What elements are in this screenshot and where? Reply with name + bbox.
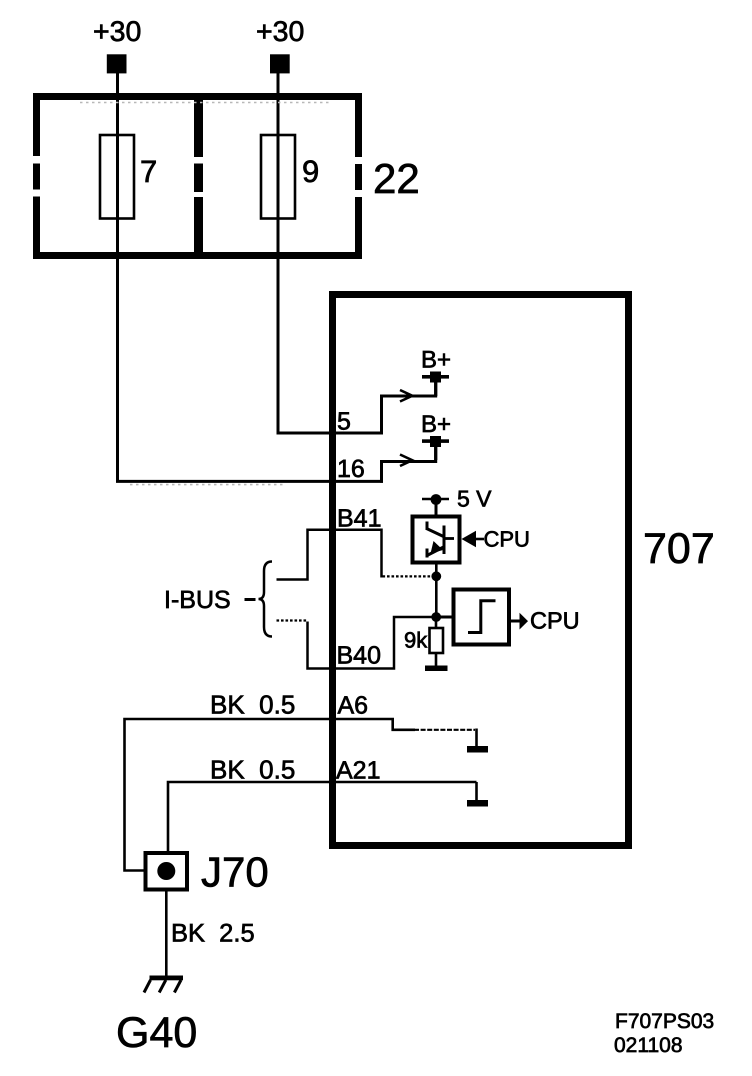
terminal +30 right square	[270, 54, 290, 73]
terminal +30 left square	[107, 54, 127, 73]
wire I-BUS lower to pin B40 and to junction	[308, 617, 433, 669]
drawing number F707PS03	[615, 1010, 714, 1033]
resistor 9k	[430, 620, 444, 666]
CPU arrow out of U2	[511, 613, 528, 630]
pin 5 label	[337, 408, 351, 436]
wire J70 to ground G40	[165, 889, 168, 976]
svg-text:+30: +30	[256, 16, 304, 48]
svg-text:B+: B+	[421, 347, 451, 374]
junction dot at B40 node	[431, 612, 441, 622]
fuse 7 label	[140, 154, 157, 189]
wire A6 internal to ground	[393, 719, 477, 746]
pin A21 label	[336, 757, 380, 785]
pin A6 label	[338, 692, 369, 720]
junction dot below U1	[431, 563, 441, 617]
5 V label	[457, 486, 492, 512]
BK 2.5 label	[171, 920, 255, 948]
svg-text:021108: 021108	[614, 1034, 683, 1057]
pin B41 label	[337, 505, 381, 533]
BK 0.5 label A21	[210, 755, 295, 785]
svg-text:B+: B+	[421, 411, 451, 438]
svg-text:B41: B41	[337, 505, 381, 533]
wire I-BUS lower stub (dashed in scan)	[277, 619, 307, 621]
ground bar A21	[467, 800, 488, 807]
label 22	[373, 155, 420, 202]
wire A21 to J70	[168, 782, 477, 871]
label 707	[643, 525, 715, 573]
B+ terminal upper	[422, 372, 449, 397]
BK 0.5 label A6	[210, 690, 295, 720]
schmitt trigger U2 box	[454, 590, 510, 645]
CPU label lower	[530, 608, 580, 634]
terminal +30 left (label)	[93, 16, 141, 48]
opto-isolator U1 box	[413, 517, 460, 563]
B+ label lower	[421, 411, 451, 438]
svg-text:5 V: 5 V	[457, 486, 492, 512]
chevron arrow pin 16	[400, 455, 412, 467]
I-BUS brace	[259, 562, 273, 637]
svg-text:9: 9	[302, 154, 319, 189]
svg-text:7: 7	[140, 154, 157, 189]
wire I-BUS upper to pin B41 and into box	[277, 530, 382, 580]
wire from +30 right through fuse 9 to pin 5	[278, 73, 383, 433]
svg-text:16: 16	[337, 455, 365, 483]
svg-text:22: 22	[373, 155, 420, 202]
J70 label	[201, 849, 269, 896]
fuse 9	[261, 135, 295, 219]
junction J70 box	[146, 853, 188, 890]
B+ terminal lower	[422, 436, 449, 460]
fuse 7	[100, 135, 134, 219]
svg-text:BK 2.5: BK 2.5	[171, 920, 255, 948]
svg-text:CPU: CPU	[530, 608, 580, 634]
ground bar below 9k	[425, 666, 448, 672]
svg-text:5: 5	[337, 408, 351, 436]
transistor symbol in U1	[427, 522, 455, 558]
scan noise below pin16 wire	[130, 484, 285, 486]
wire pin 5 to B+	[382, 378, 436, 435]
svg-text:B40: B40	[337, 642, 381, 670]
fuse holder box 22	[33, 93, 362, 259]
svg-text:707: 707	[643, 525, 715, 573]
ground bar A6	[467, 746, 488, 753]
I-BUS dash	[245, 598, 256, 601]
svg-text:A21: A21	[336, 757, 380, 785]
wire B41 to junction (dashed in scan)	[383, 575, 432, 577]
wire junction to schmitt input	[436, 616, 452, 619]
svg-text:BK 0.5: BK 0.5	[210, 690, 295, 720]
wire A6 to J70	[125, 719, 395, 871]
CPU label upper	[484, 527, 530, 552]
svg-text:I-BUS: I-BUS	[164, 586, 231, 614]
ECU box 707	[333, 295, 629, 846]
terminal +30 right (label)	[256, 16, 304, 48]
I-BUS label	[164, 586, 231, 614]
chevron arrow pin 5	[400, 390, 412, 402]
pin 16 label	[337, 455, 365, 483]
J70 junction dot	[157, 862, 175, 880]
G40 label	[116, 1009, 197, 1057]
svg-text:J70: J70	[201, 849, 269, 896]
svg-text:F707PS03: F707PS03	[615, 1010, 714, 1033]
drawing date 021108	[614, 1034, 683, 1057]
wire A21 internal to ground	[475, 782, 478, 800]
scan noise below fuse box top border	[80, 102, 330, 104]
svg-text:A6: A6	[338, 692, 369, 720]
wire pin 16 to B+	[382, 442, 436, 483]
svg-text:CPU: CPU	[484, 527, 530, 552]
pin B40 label	[337, 642, 381, 670]
svg-text:9k: 9k	[404, 628, 428, 653]
B+ label upper	[421, 347, 451, 374]
svg-text:G40: G40	[116, 1009, 197, 1057]
ground symbol G40	[144, 976, 183, 993]
fuse 9 label	[302, 154, 319, 189]
step symbol in U2	[468, 601, 496, 633]
9k label	[404, 628, 428, 653]
svg-text:BK 0.5: BK 0.5	[210, 755, 295, 785]
CPU arrow into U1	[462, 531, 485, 547]
fuse box divider	[194, 97, 203, 256]
wire from +30 left through fuse 7 to pin 16	[118, 73, 384, 481]
5 V supply terminal	[422, 494, 449, 515]
svg-text:+30: +30	[93, 16, 141, 48]
